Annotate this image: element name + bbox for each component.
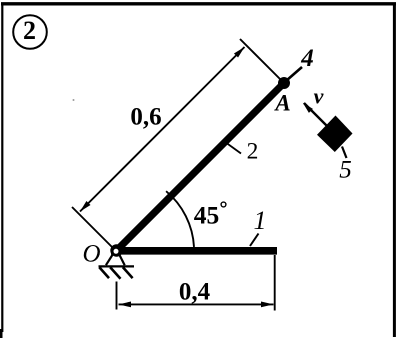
angle arc 45	[166, 191, 194, 247]
svg-text:5: 5	[339, 157, 352, 184]
label 5 leader	[342, 147, 347, 159]
label 2 leader	[227, 143, 242, 154]
dimension line 0,4	[119, 302, 274, 308]
dimension line 0,6	[80, 47, 245, 212]
pivot joint blob	[110, 244, 122, 256]
dimension 0,6 extension line at A	[240, 39, 281, 80]
svg-text:O: O	[82, 240, 100, 267]
dimension 0,4 extension line right	[274, 255, 276, 311]
angle label 45deg	[194, 200, 226, 229]
svg-text:45: 45	[194, 200, 220, 229]
point A dot	[278, 77, 290, 89]
variant number badge 2	[13, 15, 47, 49]
svg-text:A: A	[273, 90, 290, 115]
svg-text:v: v	[314, 84, 324, 109]
svg-text:0,6: 0,6	[130, 104, 161, 131]
svg-text:4: 4	[300, 45, 314, 72]
svg-text:0,4: 0,4	[179, 279, 211, 306]
rod 1 (horizontal)	[111, 247, 277, 255]
line 4 from A	[287, 67, 303, 81]
block 5	[317, 116, 353, 153]
velocity vector v	[303, 103, 327, 126]
svg-text:2: 2	[23, 16, 36, 45]
label 1 leader	[250, 234, 259, 247]
hinge support at O	[99, 254, 135, 279]
svg-text:2: 2	[247, 138, 259, 164]
dimension 0,6 extension line at O	[72, 207, 112, 247]
pivot pin at O	[113, 248, 120, 255]
dimension 0,4 extension line left	[116, 282, 118, 310]
rod 2 (diagonal 45deg)	[114, 83, 285, 254]
svg-text:1: 1	[254, 206, 267, 235]
